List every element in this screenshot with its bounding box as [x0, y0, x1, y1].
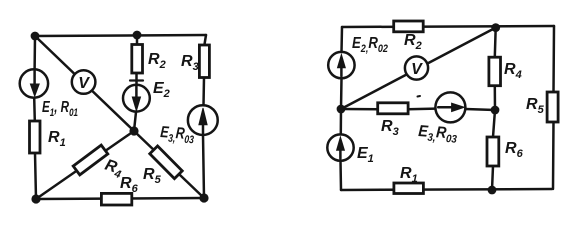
svg-text:R2: R2 [148, 51, 166, 71]
wire: left circuit diagonal TL to center node through voltmeter [35, 36, 134, 131]
svg-text:E3,R03: E3,R03 [418, 123, 458, 146]
label R3 (right circuit) [381, 118, 399, 138]
resistor R3 (right circuit) [378, 103, 408, 114]
wire: right circuit diagonal ML to top-right junction through voltmeter [341, 28, 496, 109]
junction node top of R2 branch (left circuit) [133, 31, 142, 40]
current source E2 (left circuit) [123, 81, 150, 112]
label E2,R02 (right circuit) [352, 35, 388, 55]
wire: left circuit diagonal center node to BL through R4 [36, 131, 134, 199]
label E1 (right circuit) [357, 145, 374, 165]
wire: left circuit diagonal center node to BR through R5 [134, 131, 204, 198]
resistor R1 (right circuit) [394, 183, 424, 194]
svg-text:E1: E1 [357, 145, 374, 165]
wire: right circuit R4 branch (top junction to MR) [494, 28, 497, 110]
svg-text:R1: R1 [48, 129, 66, 149]
wire: left circuit top side TL to TR [35, 35, 206, 36]
svg-text:R3: R3 [381, 118, 399, 138]
label R5 (right circuit) [526, 96, 545, 116]
resistor R5 (left circuit, angled) [150, 146, 182, 179]
label R6 (left circuit) [120, 175, 139, 195]
resistor R5 (right circuit) [547, 92, 558, 122]
wire: right circuit bottom side BL2 to far right corner [341, 189, 552, 190]
svg-text:R6: R6 [505, 140, 524, 160]
resistor R3 (left circuit) [199, 45, 209, 78]
wire: right circuit left side (TL2 through E2, ML, E1 to BL2) [341, 27, 343, 190]
label R1 (right circuit) [400, 165, 418, 185]
resistor R2 (right circuit) [394, 21, 424, 32]
ink speck near diagonal (right circuit) [418, 95, 421, 98]
label R4 (right circuit) [504, 61, 522, 81]
junction node center (left circuit) [129, 126, 138, 135]
junction node TL (left circuit) [31, 32, 40, 41]
svg-text:R5: R5 [143, 166, 162, 186]
resistor R1 (left circuit) [30, 121, 41, 153]
current source E1 (right circuit) [327, 134, 353, 160]
junction node mid-right MR (right circuit) [491, 106, 500, 115]
current source E3 (right circuit) [435, 92, 465, 122]
voltmeter V (right circuit) [405, 56, 428, 79]
label E3,R03 (right circuit) [418, 123, 458, 146]
svg-text:R3: R3 [181, 53, 199, 73]
label R4 (left circuit) [102, 157, 125, 181]
wire: left circuit left side upper (TL to E1 source) [33, 36, 36, 70]
label E3,R03 (left circuit) [160, 124, 195, 146]
svg-text:E2: E2 [153, 80, 170, 100]
junction node bottom (right circuit) [488, 186, 497, 195]
wire: right circuit middle horizontal ML to MR through R3 and E3 [341, 109, 495, 110]
wire: left circuit R2 branch (top junction to E2 to center node) [134, 35, 137, 131]
wire: right circuit top side TL2 to far right corner [342, 26, 554, 27]
junction node top-right (right circuit) [491, 23, 500, 32]
wire: left circuit left side (E1 to R1) [33, 97, 36, 121]
current source E1 (left circuit) [20, 69, 48, 97]
resistor R6 (left circuit) [101, 193, 131, 205]
svg-text:R4: R4 [504, 61, 522, 81]
resistor R6 (right circuit) [487, 137, 499, 166]
label E1,R01 (left circuit) [42, 99, 78, 119]
svg-text:R5: R5 [526, 96, 545, 116]
voltmeter V (left circuit) [72, 70, 96, 94]
wire: right circuit right side (far right, through R5) [553, 26, 554, 189]
junction node BR (left circuit) [199, 193, 208, 202]
resistor R2 (left circuit) [132, 45, 143, 74]
label R2 (right circuit) [404, 32, 422, 52]
junction node mid-left ML (right circuit) [337, 105, 346, 114]
current source E2 (right circuit) [328, 52, 354, 78]
label E2 (left circuit) [153, 80, 170, 100]
svg-text:R2: R2 [404, 32, 422, 52]
label R6 (right circuit) [505, 140, 524, 160]
label R3 (left circuit) [181, 53, 199, 73]
wire: left circuit left side lower (R1 to BL) [35, 153, 36, 199]
wire: left circuit bottom side BL to BR [36, 198, 204, 199]
svg-text:E2,R02: E2,R02 [352, 35, 388, 55]
label R2 (left circuit) [148, 51, 166, 71]
svg-text:V: V [411, 61, 423, 78]
resistor R4 (right circuit) [489, 57, 501, 85]
current source E3 (left circuit) [188, 105, 218, 135]
wire: left circuit right side (TR to R3 to E3 to BR) [203, 35, 206, 198]
junction node BL (left circuit) [31, 194, 40, 203]
label R5 (left circuit) [143, 166, 162, 186]
wire: right circuit R6 branch (MR to bottom junction) [492, 110, 495, 190]
label R1 (left circuit) [48, 129, 66, 149]
resistor R4 (left circuit, angled) [73, 145, 108, 175]
svg-text:E1, R01: E1, R01 [42, 99, 78, 119]
svg-text:V: V [78, 75, 90, 92]
